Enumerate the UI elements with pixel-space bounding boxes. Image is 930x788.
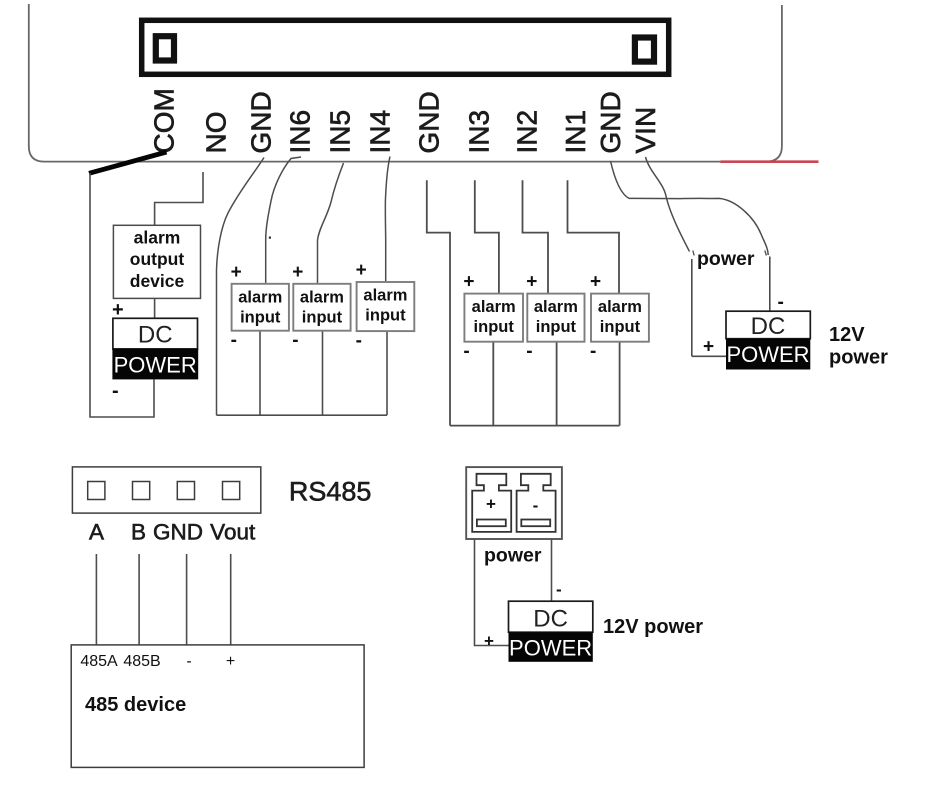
svg-text:power: power	[829, 347, 888, 369]
svg-text:alarm: alarm	[300, 288, 344, 306]
svg-text:-: -	[231, 330, 237, 351]
svg-text:GND: GND	[595, 91, 626, 153]
svg-text:+: +	[703, 337, 714, 358]
svg-text:IN3: IN3	[464, 110, 495, 154]
svg-text:VIN: VIN	[630, 107, 661, 154]
svg-text:NO: NO	[201, 112, 232, 154]
svg-text:input: input	[240, 308, 281, 326]
svg-text:alarm: alarm	[598, 298, 642, 316]
svg-text:-: -	[590, 341, 596, 362]
svg-text:alarm: alarm	[134, 228, 181, 248]
svg-text:485B: 485B	[123, 653, 160, 670]
svg-text:+: +	[292, 262, 303, 283]
svg-text:+: +	[486, 495, 496, 514]
svg-text:POWER: POWER	[509, 636, 592, 661]
svg-text:-: -	[186, 653, 191, 670]
svg-text:485A: 485A	[80, 653, 118, 670]
svg-text:12V: 12V	[829, 324, 865, 346]
svg-text:A: A	[89, 520, 104, 545]
svg-text:+: +	[231, 262, 242, 283]
svg-text:-: -	[526, 341, 532, 362]
svg-text:DC: DC	[138, 322, 173, 349]
svg-text:-: -	[356, 331, 362, 352]
svg-text:power: power	[697, 248, 755, 270]
svg-text:COM: COM	[149, 88, 180, 153]
svg-text:GND: GND	[246, 91, 277, 153]
svg-text:input: input	[302, 308, 343, 326]
svg-text:GND: GND	[153, 520, 203, 545]
svg-text:input: input	[474, 318, 515, 336]
svg-text:input: input	[536, 318, 577, 336]
svg-text:IN4: IN4	[365, 110, 396, 154]
svg-text:+: +	[590, 272, 601, 293]
svg-text:GND: GND	[414, 91, 445, 153]
svg-text:alarm: alarm	[363, 287, 407, 305]
svg-text:+: +	[484, 632, 494, 651]
svg-text:input: input	[365, 307, 406, 325]
svg-text:POWER: POWER	[726, 342, 809, 367]
svg-text:-: -	[556, 580, 562, 599]
svg-text:power: power	[484, 545, 542, 567]
svg-text:device: device	[130, 271, 185, 291]
svg-text:-: -	[292, 330, 298, 351]
svg-text:-: -	[463, 341, 469, 362]
svg-text:B: B	[131, 520, 146, 545]
svg-text:Vout: Vout	[210, 520, 256, 545]
svg-text:-: -	[778, 292, 784, 313]
svg-text:IN5: IN5	[325, 110, 356, 154]
svg-text:input: input	[600, 318, 641, 336]
svg-text:alarm: alarm	[534, 298, 578, 316]
svg-text:IN1: IN1	[560, 110, 591, 154]
svg-text:DC: DC	[751, 313, 786, 340]
svg-text:12V power: 12V power	[603, 616, 703, 638]
svg-text:alarm: alarm	[472, 298, 516, 316]
svg-text:DC: DC	[533, 606, 568, 633]
svg-text:IN2: IN2	[512, 110, 543, 154]
svg-text:+: +	[226, 653, 235, 670]
svg-text:485 device: 485 device	[85, 694, 186, 716]
svg-text:+: +	[463, 272, 474, 293]
svg-text:-: -	[533, 496, 539, 515]
svg-text:POWER: POWER	[114, 353, 197, 378]
svg-text:+: +	[526, 272, 537, 293]
svg-text:alarm: alarm	[238, 288, 282, 306]
svg-text:-: -	[112, 380, 119, 402]
svg-text:output: output	[130, 249, 185, 269]
svg-text:+: +	[356, 260, 367, 281]
svg-text:RS485: RS485	[289, 477, 372, 507]
svg-text:IN6: IN6	[285, 110, 316, 154]
